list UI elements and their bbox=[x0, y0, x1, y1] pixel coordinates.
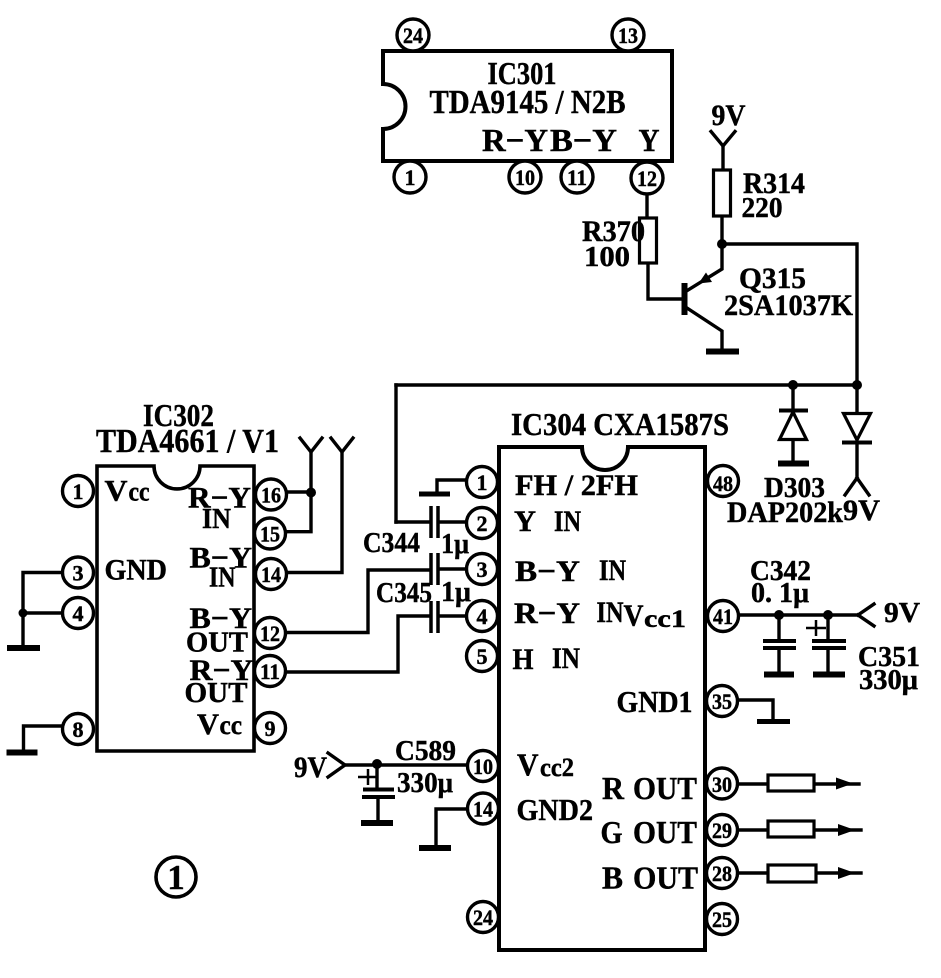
svg-text:9V: 9V bbox=[712, 99, 746, 132]
svg-text:B: B bbox=[602, 860, 623, 896]
svg-text:330μ: 330μ bbox=[859, 664, 919, 696]
svg-text:OUT: OUT bbox=[633, 814, 697, 850]
svg-text:GND: GND bbox=[105, 554, 168, 587]
svg-text:GND1: GND1 bbox=[617, 684, 693, 719]
svg-text:V: V bbox=[624, 598, 645, 633]
svg-text:10: 10 bbox=[515, 165, 535, 190]
svg-text:cc1: cc1 bbox=[644, 606, 686, 633]
svg-text:3: 3 bbox=[73, 561, 84, 586]
svg-text:220: 220 bbox=[742, 193, 783, 224]
svg-text:IN: IN bbox=[209, 563, 236, 594]
svg-text:cc2: cc2 bbox=[540, 753, 574, 782]
svg-text:IN: IN bbox=[552, 642, 580, 675]
svg-text:2SA1037K: 2SA1037K bbox=[724, 289, 854, 322]
svg-text:4: 4 bbox=[477, 604, 488, 629]
svg-text:DAP202k: DAP202k bbox=[727, 496, 843, 529]
svg-text:5: 5 bbox=[477, 644, 488, 669]
svg-text:FH / 2FH: FH / 2FH bbox=[515, 469, 638, 502]
svg-text:14: 14 bbox=[473, 797, 493, 822]
svg-text:0. 1μ: 0. 1μ bbox=[751, 578, 809, 609]
svg-text:9V: 9V bbox=[884, 597, 920, 629]
svg-text:30: 30 bbox=[712, 772, 732, 797]
svg-text:TDA4661 / V1: TDA4661 / V1 bbox=[96, 423, 279, 460]
svg-text:28: 28 bbox=[712, 861, 732, 886]
svg-text:330μ: 330μ bbox=[397, 767, 454, 799]
svg-text:B−Y: B−Y bbox=[550, 122, 617, 158]
svg-text:15: 15 bbox=[260, 522, 280, 547]
svg-text:V: V bbox=[517, 747, 539, 783]
svg-text:13: 13 bbox=[618, 23, 638, 48]
svg-text:3: 3 bbox=[477, 557, 488, 582]
svg-text:G: G bbox=[601, 814, 623, 850]
svg-text:24: 24 bbox=[473, 905, 493, 930]
svg-text:48: 48 bbox=[713, 471, 733, 496]
svg-text:2: 2 bbox=[477, 511, 488, 536]
svg-text:1: 1 bbox=[477, 470, 488, 495]
svg-text:IN: IN bbox=[599, 554, 626, 587]
svg-text:16: 16 bbox=[261, 483, 281, 508]
svg-text:IN: IN bbox=[202, 504, 231, 535]
svg-text:9V: 9V bbox=[843, 494, 880, 527]
svg-text:25: 25 bbox=[712, 907, 732, 932]
svg-text:11: 11 bbox=[260, 659, 280, 684]
svg-text:29: 29 bbox=[712, 818, 732, 843]
svg-text:IN: IN bbox=[554, 505, 581, 538]
svg-text:12: 12 bbox=[637, 166, 657, 191]
svg-text:V: V bbox=[105, 475, 128, 508]
svg-text:8: 8 bbox=[73, 717, 84, 742]
svg-text:9: 9 bbox=[265, 716, 276, 741]
svg-text:GND2: GND2 bbox=[517, 792, 594, 827]
svg-text:1: 1 bbox=[167, 858, 185, 897]
svg-text:C345: C345 bbox=[376, 577, 432, 609]
svg-text:4: 4 bbox=[73, 601, 84, 626]
svg-text:B−Y: B−Y bbox=[515, 555, 580, 588]
svg-text:24: 24 bbox=[403, 23, 423, 48]
svg-text:C344: C344 bbox=[363, 527, 420, 559]
svg-text:IC304 CXA1587S: IC304 CXA1587S bbox=[511, 406, 729, 442]
svg-text:cc: cc bbox=[220, 710, 243, 740]
svg-text:TDA9145 / N2B: TDA9145 / N2B bbox=[430, 84, 626, 121]
svg-text:1: 1 bbox=[73, 479, 84, 504]
svg-text:100: 100 bbox=[584, 241, 630, 273]
svg-text:R−Y: R−Y bbox=[482, 122, 548, 158]
svg-text:9V: 9V bbox=[294, 751, 327, 784]
svg-text:Y: Y bbox=[639, 122, 660, 158]
svg-text:C589: C589 bbox=[395, 735, 456, 767]
svg-text:H: H bbox=[513, 643, 534, 676]
svg-text:11: 11 bbox=[567, 165, 587, 190]
svg-text:R−Y: R−Y bbox=[514, 597, 580, 630]
svg-text:OUT: OUT bbox=[633, 860, 698, 896]
svg-text:12: 12 bbox=[260, 621, 280, 646]
svg-text:OUT: OUT bbox=[185, 678, 248, 709]
svg-text:IN: IN bbox=[597, 596, 624, 629]
svg-text:V: V bbox=[197, 708, 219, 741]
svg-text:14: 14 bbox=[261, 562, 281, 587]
svg-text:10: 10 bbox=[473, 754, 493, 779]
svg-text:cc: cc bbox=[129, 477, 150, 507]
svg-text:35: 35 bbox=[712, 689, 732, 714]
svg-text:OUT: OUT bbox=[633, 770, 697, 806]
svg-text:R: R bbox=[602, 770, 625, 806]
svg-text:1: 1 bbox=[405, 165, 416, 190]
svg-text:Y: Y bbox=[514, 505, 536, 538]
svg-text:1μ: 1μ bbox=[441, 576, 472, 608]
svg-text:41: 41 bbox=[713, 604, 733, 629]
svg-text:1μ: 1μ bbox=[441, 528, 469, 560]
